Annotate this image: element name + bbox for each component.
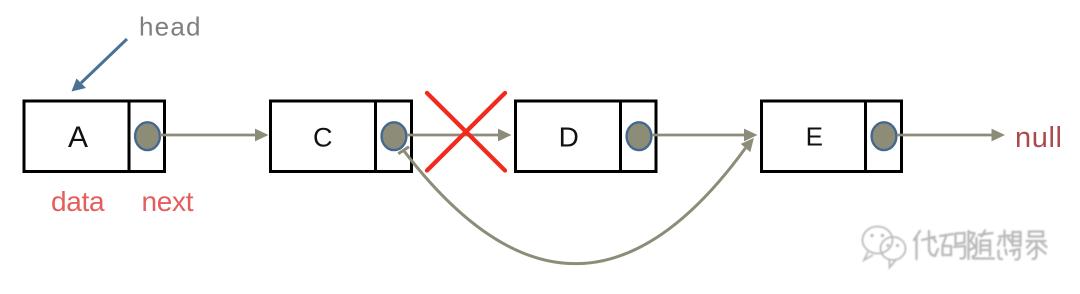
svg-text:null: null [1015,122,1063,154]
svg-text:D: D [559,121,579,152]
svg-text:data: data [51,186,105,217]
svg-text:A: A [68,121,88,154]
svg-text:C: C [313,123,333,153]
svg-text:E: E [806,122,823,152]
svg-text:head: head [139,12,202,42]
svg-text:next: next [142,186,194,217]
